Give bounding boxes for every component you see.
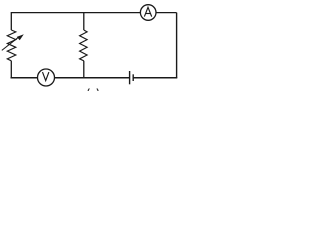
resistor R2 (middle branch zigzag) [80, 30, 88, 61]
arrow of rheostat R1 [2, 34, 24, 50]
wire left side below rheostat [10, 61, 12, 79]
battery BT1 long plate [129, 71, 131, 84]
voltmeter U2 circle [38, 69, 55, 86]
ammeter letter A (drawn as path) [144, 7, 151, 16]
wire right side [176, 13, 178, 78]
wire middle branch (resistor to bottom wire) [83, 61, 85, 79]
battery BT1 short plate [132, 74, 134, 81]
caption (a) top of left parenthesis, cut off at bottom [88, 89, 89, 92]
wire bottom right segment (from battery short plate) [133, 77, 177, 79]
ammeter U1 circle [140, 5, 156, 21]
variable resistor R1 (rheostat zigzag, left branch) [7, 30, 16, 61]
wire bottom left segment (to battery long plate) [11, 77, 130, 79]
wire middle branch (top wire to resistor) [83, 13, 85, 30]
wire top (left corner to right corner) [11, 13, 176, 30]
voltmeter letter V (drawn as path) [43, 72, 49, 81]
caption (a) top of right parenthesis, cut off at bottom [97, 89, 98, 92]
